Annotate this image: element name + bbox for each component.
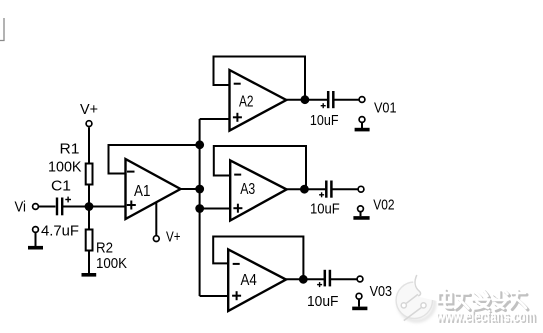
wire A1 feedback (output to inverting input) [109, 145, 200, 174]
wire bus to A4 noninverting input [200, 295, 229, 297]
svg-text:V+: V+ [80, 101, 98, 118]
svg-text:100K: 100K [96, 255, 127, 272]
svg-text:www.elecfans.com: www.elecfans.com [436, 308, 536, 325]
op-amp A4 inverting pin mark [233, 263, 240, 265]
svg-text:10uF: 10uF [310, 202, 340, 218]
V03 ground terminal circle [356, 293, 362, 299]
ground (V01) [355, 123, 370, 130]
wire A3 feedback loop [214, 146, 306, 189]
node: bus junction to A3 input [195, 204, 204, 213]
node: A4 output junction [299, 275, 308, 284]
wire R1 bottom to input node [88, 184, 90, 208]
svg-text:V+: V+ [166, 229, 181, 246]
terminal A1 V+ pin [153, 236, 159, 242]
node: input node (C1/R1/R2/A1+) [85, 202, 94, 211]
wire A3 output to C3 [287, 188, 326, 190]
wire signal bus vertical [199, 119, 201, 296]
svg-text:10uF: 10uF [307, 294, 339, 310]
terminal V03 [357, 276, 363, 282]
capacitor C4 polarity plus [317, 282, 322, 287]
op-amp A1 triangle [126, 159, 181, 219]
wire C1 to A1 noninverting input [63, 206, 126, 208]
ground (R2) [82, 273, 97, 277]
op-amp A4 noninverting pin mark [232, 291, 241, 300]
svg-text:V03: V03 [370, 283, 393, 300]
node: bus junction with A1 output [195, 185, 204, 194]
ground (input) [28, 233, 43, 248]
wire bus to A2 noninverting input [200, 118, 230, 120]
svg-text:A4: A4 [241, 272, 257, 289]
op-amp A2 inverting pin mark [234, 83, 241, 85]
node: A3 output junction [300, 185, 309, 194]
node: bus junction with A1 feedback [195, 140, 204, 149]
svg-text:100K: 100K [48, 158, 82, 175]
terminal V01 [359, 97, 365, 103]
svg-text:V02: V02 [373, 197, 394, 214]
resistor R1 body [86, 164, 93, 185]
ground (V03) [352, 300, 367, 309]
capacitor C1 plates [57, 198, 62, 216]
svg-text:R1: R1 [60, 141, 80, 158]
wire A4 output to C4 [286, 278, 324, 280]
wire R2 bottom to ground [88, 250, 90, 274]
V02 ground terminal circle [358, 206, 364, 212]
watermark url www.elecfans.com [436, 308, 538, 327]
wire Vi terminal to C1 [39, 206, 56, 208]
svg-text:V01: V01 [374, 100, 397, 117]
wire A4 feedback loop [213, 237, 303, 280]
wire C3 to V02 terminal [332, 188, 357, 190]
svg-text:10uF: 10uF [310, 113, 339, 129]
op-amp A4 triangle [228, 249, 286, 311]
op-amp A3 noninverting pin mark [233, 204, 242, 213]
wire bus to A3 noninverting input [200, 208, 231, 210]
wire input node to R2 top [88, 207, 90, 230]
svg-text:C1: C1 [51, 178, 71, 195]
capacitor C2 polarity plus [321, 103, 326, 108]
wire A2 feedback loop [214, 57, 306, 100]
svg-text:A1: A1 [134, 183, 150, 200]
wire A1 output to bus [181, 188, 200, 190]
wire A1 V+ pin [155, 203, 157, 236]
capacitor C3 polarity plus [319, 192, 324, 197]
wire V+ supply to R1 top [88, 127, 90, 163]
terminal V02 [358, 186, 364, 192]
svg-text:4.7uF: 4.7uF [41, 223, 79, 240]
ground (V02) [353, 212, 369, 218]
capacitor C4 10uF plates [325, 270, 330, 287]
resistor R2 body [86, 230, 93, 251]
watermark chinese text 电子发烧友 [438, 290, 528, 311]
svg-text:A2: A2 [239, 93, 254, 110]
V01 ground terminal circle [359, 117, 365, 123]
capacitor C2 10uF plates [328, 91, 333, 108]
node: A2 output junction [301, 95, 310, 104]
op-amp A2 noninverting pin mark [233, 113, 242, 122]
wire A2 output to C2 [286, 99, 327, 101]
wire C2 to V01 terminal [334, 99, 358, 101]
capacitor C1 polarity plus [65, 197, 71, 203]
op-amp A1 noninverting pin mark [127, 201, 136, 210]
op-amp A1 inverting pin mark [127, 171, 135, 173]
input ground terminal circle [33, 227, 39, 233]
op-amp A3 inverting pin mark [234, 174, 241, 176]
capacitor C3 10uF plates [326, 181, 331, 198]
svg-text:A3: A3 [240, 181, 255, 198]
op-amp A2 triangle [230, 70, 287, 131]
terminal V+ top [86, 121, 92, 127]
op-amp A3 triangle [230, 160, 286, 220]
terminal Vi input [33, 204, 39, 210]
wire C4 to V03 terminal [331, 278, 357, 280]
svg-text:Vi: Vi [15, 198, 27, 215]
